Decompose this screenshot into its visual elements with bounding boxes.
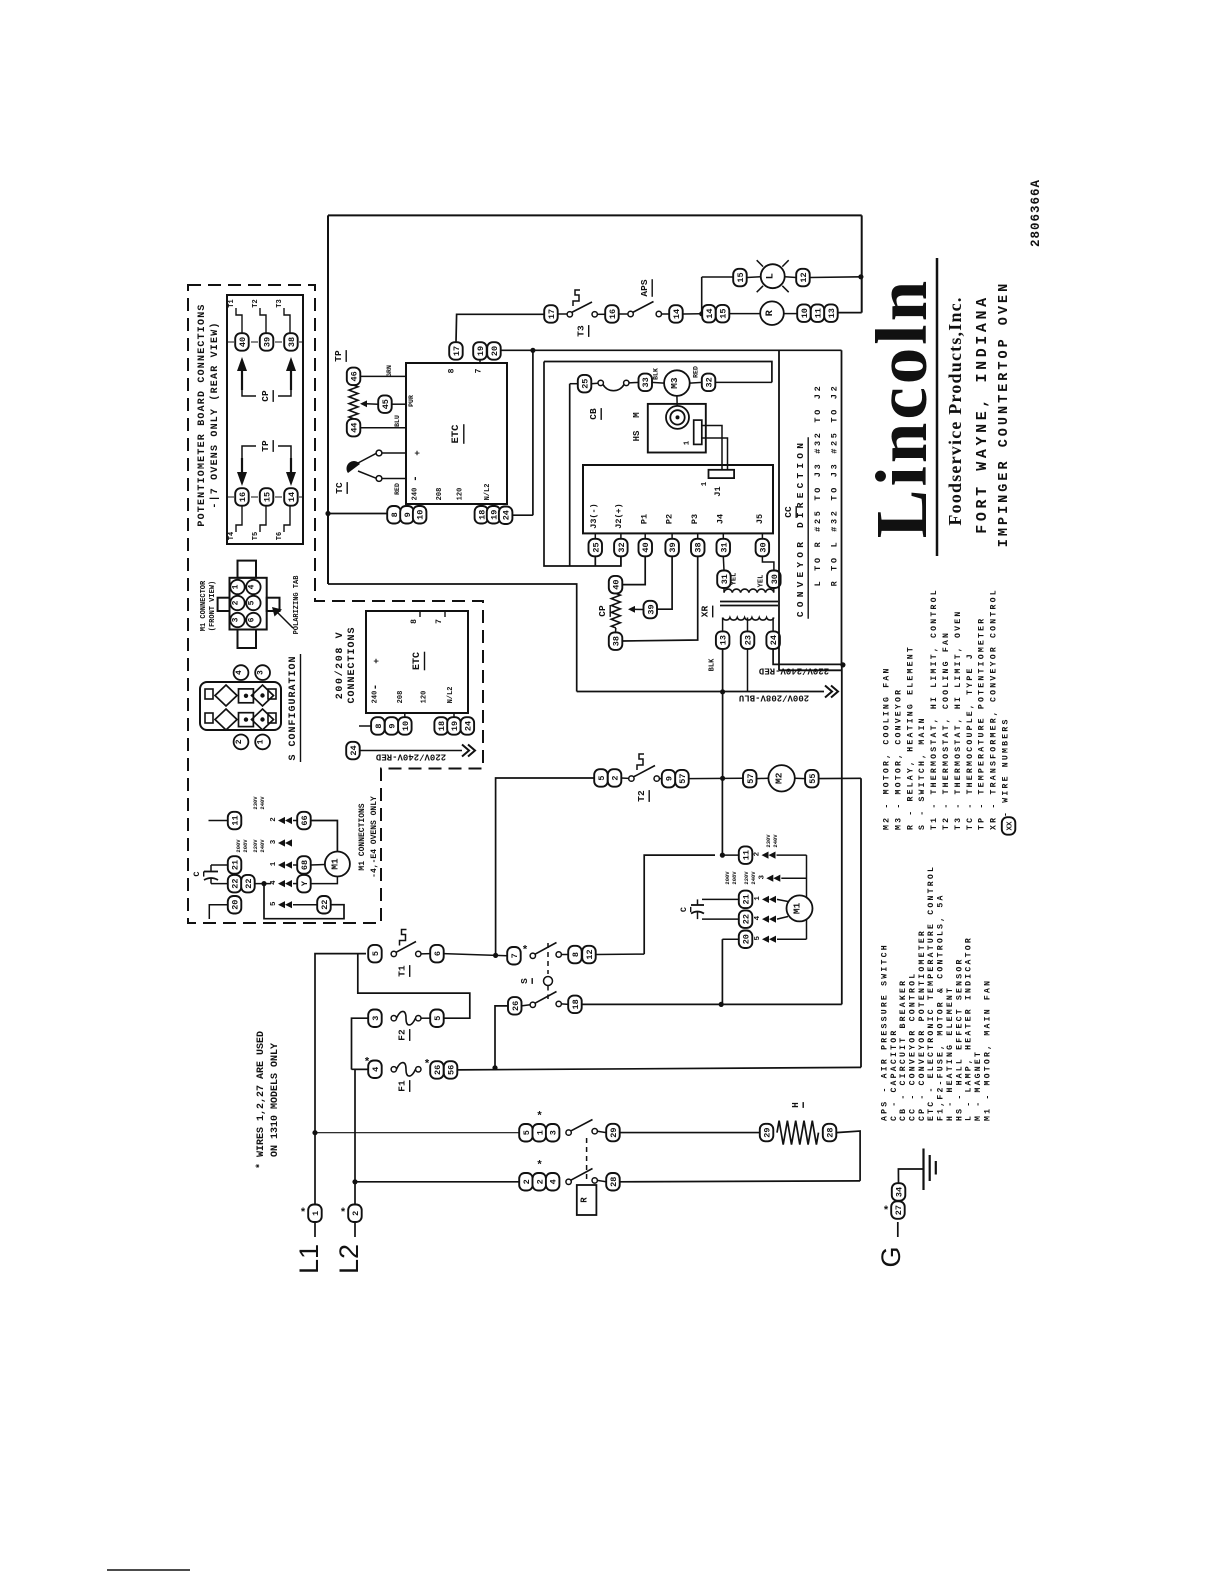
svg-text:TC - THERMOCOUPLE, TYPE J: TC - THERMOCOUPLE, TYPE J: [966, 652, 975, 830]
svg-text:120: 120: [457, 488, 465, 501]
terminal 10 200/208: [398, 717, 412, 735]
terminal 15 board: [260, 488, 274, 506]
wire L1 stub: [314, 1222, 316, 1237]
svg-text:1: 1: [311, 1211, 321, 1216]
svg-text:31: 31: [720, 574, 730, 584]
wire 17 to T3 contact: [558, 313, 567, 315]
svg-text:*: *: [523, 944, 528, 956]
svg-text:11: 11: [742, 850, 752, 860]
svg-text:3: 3: [758, 874, 766, 879]
terminal 20 M1: [739, 931, 753, 949]
wire lamp row: [702, 276, 734, 278]
wire M1 bottom to row4: [806, 920, 808, 940]
svg-text:25: 25: [581, 379, 591, 389]
svg-text:2: 2: [235, 739, 244, 744]
svg-text:200V/208V-BLU: 200V/208V-BLU: [739, 693, 809, 703]
thermocouple TC junction blob: [347, 461, 360, 473]
ETC box 200/208V: [366, 611, 468, 713]
svg-text:15: 15: [736, 272, 746, 282]
wire lamp branch up: [701, 277, 703, 314]
svg-text:10: 10: [401, 721, 411, 731]
svg-text:5: 5: [597, 775, 607, 780]
svg-text:P2: P2: [665, 514, 675, 524]
svg-text:28: 28: [826, 1127, 836, 1137]
svg-text:27: 27: [894, 1205, 904, 1215]
terminal 22c M1c: [317, 896, 331, 914]
dash line terminal row 40: [227, 341, 303, 343]
svg-text:ON 1310 MODELS ONLY: ON 1310 MODELS ONLY: [270, 1043, 281, 1157]
svg-text:21: 21: [742, 894, 752, 904]
svg-text:32: 32: [617, 542, 627, 552]
svg-text:XX: XX: [1007, 821, 1015, 831]
svg-text:34: 34: [895, 1187, 905, 1197]
svg-text:L1: L1: [294, 1244, 324, 1274]
svg-text:7: 7: [475, 368, 484, 373]
capacitor C main: [702, 898, 739, 900]
wire TC plus lead: [358, 453, 376, 463]
wire row1 to terminal 11: [722, 854, 738, 856]
svg-text:230V: 230V: [765, 834, 772, 848]
wire main box right edge: [861, 215, 863, 312]
wire R to terminals: [784, 313, 798, 315]
transformer XR secondary winding: [723, 618, 774, 621]
terminal 39 board: [260, 333, 274, 351]
svg-text:8: 8: [390, 512, 400, 517]
svg-text:3: 3: [232, 617, 241, 622]
wire ground to symbol: [898, 1169, 923, 1183]
wire 24 to 220/240V rail: [773, 649, 843, 665]
wire 68 to M1c: [311, 864, 325, 867]
svg-text:220V: 220V: [743, 871, 750, 885]
svg-text:1: 1: [701, 481, 709, 486]
svg-text:29: 29: [763, 1127, 773, 1137]
svg-text:-: -: [410, 475, 422, 482]
M1 connector left tab: [218, 598, 230, 611]
svg-text:+: +: [372, 658, 382, 663]
wire P2-39 down to CP39: [657, 556, 672, 609]
terminal 25 under J3: [589, 539, 603, 557]
svg-text:18: 18: [571, 999, 581, 1009]
svg-text:55: 55: [808, 773, 818, 783]
svg-text:T1: T1: [397, 965, 408, 977]
svg-text:26: 26: [511, 1001, 521, 1011]
arrow CP up left: [237, 357, 247, 371]
S pole A blade: [535, 943, 557, 955]
svg-text:BLU: BLU: [394, 415, 401, 427]
svg-text:19: 19: [450, 721, 460, 731]
connector J1 bar: [709, 470, 735, 478]
svg-text:4: 4: [371, 1067, 381, 1072]
wire left rail: [327, 215, 329, 584]
node RED rail junction: [840, 662, 845, 667]
terminal 8 200/208: [371, 717, 385, 735]
motor M2 cooling fan: [768, 765, 794, 791]
CP wiper arrow: [634, 608, 644, 610]
svg-text:23: 23: [744, 635, 754, 645]
svg-text:CB: CB: [588, 408, 599, 420]
terminal 56 F1: [444, 1061, 458, 1079]
svg-text:15: 15: [263, 492, 273, 502]
wire 66 to M1c: [311, 821, 338, 852]
svg-text:M1 CONNECTOR: M1 CONNECTOR: [200, 580, 208, 631]
wire terminal 17 up to T3 row: [456, 314, 544, 342]
svg-text:13: 13: [827, 308, 837, 318]
svg-text:5: 5: [754, 935, 762, 940]
terminal 28 heater2: [606, 1173, 620, 1191]
svg-text:22: 22: [244, 878, 254, 888]
terminal 8 S: [568, 946, 582, 964]
svg-text:19: 19: [476, 346, 486, 356]
T2 blade: [633, 766, 655, 778]
svg-text:L - LAMP, HEATER INDICATOR: L - LAMP, HEATER INDICATOR: [965, 936, 974, 1121]
wire 25 down to bus: [594, 556, 596, 566]
relay R coil circle: [760, 301, 784, 325]
wire 24 to junction rail: [512, 514, 533, 516]
svg-text:R: R: [764, 309, 776, 316]
svg-text:RED: RED: [394, 483, 401, 495]
wire to 29: [597, 1131, 606, 1132]
svg-text:FORT WAYNE, INDIANA: FORT WAYNE, INDIANA: [974, 294, 991, 533]
wire stub 10b to 208: [404, 713, 406, 717]
T1 contact left: [391, 951, 396, 956]
wire T2 to 9: [659, 778, 661, 780]
svg-text:BLK: BLK: [709, 658, 717, 671]
svg-text:T3: T3: [576, 325, 587, 337]
svg-text:38: 38: [694, 542, 704, 552]
terminal 22b M1c: [241, 875, 255, 893]
svg-text:39: 39: [263, 337, 273, 347]
svg-text:XR - TRANSFORMER, CONVEYOR CON: XR - TRANSFORMER, CONVEYOR CONTROL: [990, 588, 999, 830]
terminal 3 F2: [368, 1010, 382, 1028]
svg-text:120: 120: [421, 691, 429, 704]
wire S row B rail up to RED junction: [841, 665, 843, 1005]
APS blade: [633, 302, 654, 313]
wire 28 to loop corner: [620, 1180, 860, 1183]
svg-text:M: M: [632, 412, 642, 417]
svg-text:1: 1: [232, 584, 241, 589]
wire M3 to 32: [690, 381, 702, 384]
svg-text:10: 10: [800, 308, 810, 318]
potentiometer CP zigzag: [611, 593, 620, 628]
wire heater row2: [355, 1181, 519, 1183]
terminal 26 F1: [430, 1061, 444, 1079]
wire to 18: [561, 1003, 568, 1006]
terminal 28b: [823, 1124, 837, 1142]
wire M1 right drop: [806, 855, 808, 897]
svg-text:3: 3: [270, 839, 278, 844]
svg-text:6: 6: [247, 617, 256, 622]
svg-text:39: 39: [646, 604, 656, 614]
wire row4 left: [209, 905, 227, 919]
wire 16 to APS contact: [619, 313, 628, 315]
T1 blade: [396, 942, 416, 953]
svg-text:44: 44: [350, 423, 360, 433]
terminal 18 200/208: [434, 717, 448, 735]
thermostat T1 step symbol: [400, 930, 407, 946]
svg-text:57: 57: [746, 773, 756, 783]
svg-text:GRN: GRN: [386, 365, 393, 377]
wire H loop right: [836, 1131, 860, 1181]
svg-text:7: 7: [435, 619, 444, 624]
svg-text:N/L2: N/L2: [484, 484, 492, 501]
thermostat T3 step symbol: [573, 290, 580, 306]
svg-text:24: 24: [349, 745, 359, 755]
wire 29 to 29b: [620, 1132, 760, 1134]
S config inner clips: [205, 689, 213, 699]
svg-text:*: *: [301, 1206, 306, 1218]
svg-text:9: 9: [403, 512, 413, 517]
wire 14 to junction: [683, 313, 701, 315]
wire to 8: [561, 954, 568, 956]
svg-text:16: 16: [238, 492, 248, 502]
wire T2 row left riser: [496, 778, 595, 955]
svg-text:M1 CONNECTIONS: M1 CONNECTIONS: [358, 803, 367, 870]
wire arrows4 to Y: [293, 883, 297, 885]
svg-text:M3 - MOTOR, CONVEYOR: M3 - MOTOR, CONVEYOR: [894, 688, 903, 830]
wire P1-40 down: [622, 556, 645, 584]
svg-text:200V: 200V: [235, 839, 242, 853]
terminal 32 under J2: [614, 539, 628, 557]
wire 55 to right return rail: [819, 777, 861, 779]
conveyor direction box bottom: [779, 669, 842, 671]
svg-text:M1 - MOTOR, MAIN FAN: M1 - MOTOR, MAIN FAN: [983, 979, 992, 1121]
svg-text:T1: T1: [228, 299, 236, 307]
svg-text:14: 14: [287, 492, 297, 502]
wire L2 rail: [355, 1069, 368, 1204]
terminal 33: [639, 374, 653, 392]
terminal 1 L1: [308, 1205, 322, 1223]
wire J4-31 stub: [722, 556, 725, 570]
terminal Y: [297, 875, 311, 893]
wire conveyor left rail: [544, 362, 621, 567]
svg-text:+: +: [413, 450, 423, 455]
svg-text:1: 1: [270, 861, 278, 866]
svg-text:POLARIZING TAB: POLARIZING TAB: [293, 575, 301, 635]
wire pin7 stub: [479, 360, 481, 363]
wire 57 to M2: [757, 777, 769, 779]
terminal 32 M3: [702, 374, 716, 392]
terminal 29 heater1: [606, 1124, 620, 1142]
terminal 38 board: [284, 333, 298, 351]
relay R actuator box: [577, 1185, 597, 1215]
hall sensor element: [694, 420, 702, 444]
svg-text:28: 28: [609, 1177, 619, 1187]
wire CP zig to 38: [615, 628, 617, 632]
wire M1 block feed riser: [644, 855, 715, 954]
wire 15 to lamp: [747, 276, 761, 279]
svg-text:208: 208: [436, 488, 444, 501]
T3 blade: [572, 302, 593, 313]
svg-text:3: 3: [257, 670, 266, 675]
M1 connector top tab: [238, 561, 257, 578]
wire S row B to right rail: [582, 1003, 842, 1005]
terminal 20 M1c: [228, 896, 242, 914]
terminal 15 lamp: [733, 269, 747, 287]
svg-text:Foodservice Products,Inc.: Foodservice Products,Inc.: [945, 296, 965, 525]
svg-text:33: 33: [641, 377, 651, 387]
node BLK crosses BLU: [720, 689, 725, 694]
svg-text:P1: P1: [640, 514, 650, 524]
svg-text:HS - HALL EFFECT SENSOR: HS - HALL EFFECT SENSOR: [955, 957, 964, 1121]
terminal 3 heater1: [546, 1124, 560, 1142]
svg-text:CP: CP: [597, 605, 608, 617]
terminal 22 M1: [739, 910, 753, 928]
wire left rail to BLU feed: [328, 584, 577, 692]
node lamp row joins right edge: [858, 274, 863, 279]
terminal 44: [347, 419, 361, 437]
potentiometer TP zigzag: [349, 385, 358, 419]
pin arrows 1 M1c: [278, 861, 285, 868]
svg-text:240: 240: [412, 488, 420, 501]
svg-text:Y: Y: [300, 880, 310, 886]
wire J5-30 jog: [762, 556, 774, 570]
wire 6 to junction: [444, 954, 496, 956]
svg-text:4: 4: [549, 1179, 559, 1184]
polarizing tab arrow: [276, 611, 293, 628]
wire 45 to ETC with PUR label: [392, 403, 406, 405]
dashed enclosure potentiometer/M1 connections: [188, 285, 483, 923]
heater row1 contact: [566, 1130, 571, 1135]
terminal 14: [669, 305, 683, 323]
svg-text:12: 12: [799, 272, 809, 282]
svg-text:T2: T2: [636, 790, 647, 802]
svg-text:24: 24: [502, 510, 512, 520]
conveyor direction box left edge: [778, 350, 780, 670]
terminal 21 M1c: [228, 856, 242, 874]
terminal 19: [473, 342, 487, 360]
bracket TP: [242, 446, 256, 458]
svg-text:15: 15: [719, 308, 729, 318]
svg-text:11: 11: [231, 815, 241, 825]
svg-text:F2: F2: [397, 1029, 408, 1041]
svg-text:31: 31: [719, 542, 729, 552]
terminal 66: [297, 812, 311, 830]
svg-text:8: 8: [571, 952, 581, 957]
terminal 45: [378, 395, 392, 413]
svg-text:*: *: [341, 1206, 346, 1218]
svg-text:J2(+): J2(+): [614, 503, 624, 529]
svg-text:* WIRES 1,2,27 ARE USED: * WIRES 1,2,27 ARE USED: [255, 1031, 267, 1169]
wire M3 to magnet: [676, 396, 678, 406]
svg-text:R: R: [580, 1197, 590, 1203]
svg-text:-: -: [370, 684, 382, 691]
wire pin240 stub to 10: [419, 504, 421, 506]
terminal 9 T2: [662, 770, 676, 788]
terminal 16: [605, 305, 619, 323]
terminal 26 S: [508, 997, 522, 1015]
S config squares: [239, 689, 254, 703]
wire Y to M1c: [311, 877, 338, 884]
terminal 31 XR: [717, 571, 731, 589]
svg-text:4: 4: [247, 584, 256, 589]
wire G stub: [897, 1222, 899, 1237]
S config circle 2: [234, 735, 249, 750]
svg-text:N/L2: N/L2: [447, 687, 455, 704]
motor M1 connections: [325, 852, 350, 877]
svg-text:4: 4: [754, 915, 762, 920]
wire CP38 to P3-38: [622, 556, 698, 641]
terminal 9 200/208: [385, 717, 399, 735]
pin stubs CC: [594, 533, 596, 540]
wire 44 to ETC with BLU label: [360, 427, 406, 429]
svg-text:T2: T2: [252, 299, 260, 307]
svg-text:YEL: YEL: [731, 573, 739, 586]
wire BLK to M1 row1: [721, 778, 723, 855]
svg-text:22: 22: [742, 914, 752, 924]
svg-text:14: 14: [672, 309, 682, 319]
terminal 30 XR: [767, 571, 781, 589]
terminal 16 board: [235, 488, 249, 506]
terminal 57a: [675, 770, 689, 788]
svg-text:H: H: [790, 1102, 801, 1108]
svg-text:24: 24: [769, 635, 779, 645]
svg-text:M2: M2: [774, 772, 785, 784]
svg-text:9: 9: [665, 776, 675, 781]
svg-text:11: 11: [814, 308, 824, 318]
svg-text:TC: TC: [334, 482, 345, 494]
terminal 4 heater2: [546, 1173, 560, 1191]
svg-text:5: 5: [371, 951, 381, 956]
wire 26 branch down to F1 row: [495, 1006, 508, 1068]
terminal 13b: [824, 304, 838, 322]
wire arrows1 to M1: [777, 899, 788, 901]
terminal 12 S: [582, 946, 596, 964]
terminal 40 board: [235, 333, 249, 351]
wire L2 stub: [354, 1222, 356, 1237]
ground symbol: [922, 1149, 924, 1191]
wire BLU line: [577, 691, 824, 693]
heater row1 blade: [571, 1120, 593, 1132]
svg-text:3: 3: [371, 1016, 381, 1021]
svg-text:1: 1: [257, 739, 266, 744]
svg-text:1: 1: [684, 440, 692, 445]
svg-text:(FRONT VIEW): (FRONT VIEW): [209, 581, 217, 631]
wire sensor leads to J1: [702, 426, 722, 470]
svg-text:CC - CONVEYOR CONTROL: CC - CONVEYOR CONTROL: [909, 972, 918, 1121]
terminal 19b: [487, 506, 501, 524]
svg-text:8: 8: [448, 368, 457, 373]
pin arrows 3: [766, 875, 773, 882]
F1 contact left: [391, 1067, 396, 1072]
wire junction to 7: [496, 954, 508, 956]
node junction left rail ETC feed: [325, 511, 330, 516]
svg-text:M1: M1: [329, 858, 340, 870]
svg-text:S: S: [519, 978, 530, 984]
svg-text:38: 38: [612, 636, 622, 646]
svg-text:*: *: [537, 1110, 542, 1122]
terminal 5 F2: [430, 1010, 444, 1028]
node BLK joins M2 row: [720, 776, 725, 781]
svg-text:25: 25: [591, 542, 601, 552]
svg-text:IMPINGER COUNTERTOP OVEN: IMPINGER COUNTERTOP OVEN: [997, 281, 1012, 547]
wire L1 rail: [315, 954, 366, 1204]
svg-text:220V/240V-RED: 220V/240V-RED: [375, 752, 446, 762]
M1 connector pins 1-6: [230, 580, 244, 594]
ETC control box: [406, 363, 507, 504]
svg-text:T3 - THERMOSTAT, HI LIMIT, OVE: T3 - THERMOSTAT, HI LIMIT, OVEN: [954, 609, 963, 830]
wire stub left of 8b: [359, 725, 371, 727]
svg-text:*: *: [884, 1204, 889, 1216]
svg-text:68: 68: [300, 860, 310, 870]
svg-text:G: G: [876, 1246, 906, 1267]
terminal 2 T2: [608, 769, 622, 787]
S config diamonds row1: [215, 685, 237, 706]
wire F1 row to right return rail: [457, 1067, 861, 1070]
node L2 heater branch: [352, 1179, 357, 1184]
svg-text:C - CAPACITOR: C - CAPACITOR: [890, 1029, 899, 1121]
svg-text:200/208 V: 200/208 V: [334, 631, 346, 699]
arrow TP down right: [290, 458, 292, 472]
